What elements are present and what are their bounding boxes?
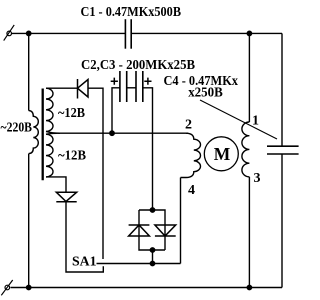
svg-text:M: M bbox=[214, 144, 231, 164]
wire C4 pointer leader bbox=[200, 100, 277, 139]
wire C4 bottom lead bbox=[281, 154, 283, 288]
node diode pair top bbox=[150, 207, 156, 213]
terminal top-left bbox=[4, 25, 15, 41]
wire winding 1 top lead bbox=[248, 33, 250, 122]
node top-left junction bbox=[26, 31, 32, 37]
diode VD3 (left, pointing up) bbox=[129, 225, 150, 236]
wire C2C3 middle link bbox=[127, 87, 136, 89]
wire VD2 down and right to switch stub bbox=[66, 202, 103, 272]
svg-text:SA1: SA1 bbox=[72, 255, 97, 270]
wire winding 3 bottom lead bbox=[248, 177, 250, 288]
motor starting winding 2-4 bbox=[181, 133, 201, 177]
wire top bus right bbox=[131, 32, 282, 34]
capacitor C1 bbox=[125, 19, 131, 49]
wire diode pair frame bbox=[139, 210, 165, 250]
node bottom-left junction bbox=[26, 285, 32, 291]
wire C2C3 right lead bbox=[143, 88, 153, 210]
svg-text:~12B: ~12B bbox=[58, 106, 85, 121]
wire C2C3 left lead bbox=[112, 88, 120, 133]
motor run winding 1-3 bbox=[242, 122, 249, 177]
svg-text:4: 4 bbox=[188, 183, 195, 198]
node diode pair bottom bbox=[150, 247, 156, 253]
diode VD1 bbox=[78, 79, 89, 99]
wire secondary top lead bbox=[46, 87, 78, 89]
wire secondary bottom lead bbox=[46, 177, 66, 192]
terminal bottom-left bbox=[1, 280, 12, 295]
svg-text:~12B: ~12B bbox=[58, 148, 86, 163]
label C4 value bbox=[164, 74, 239, 101]
label plus right bbox=[144, 78, 151, 85]
wire top bus bbox=[12, 32, 126, 34]
svg-text:~220B: ~220B bbox=[1, 121, 33, 136]
wire VD1 to switch (down at x=103) bbox=[88, 88, 103, 259]
svg-text:3: 3 bbox=[254, 171, 261, 186]
node switch to diode pair junction bbox=[150, 261, 156, 267]
svg-text:C2,C3 - 200MKx25B: C2,C3 - 200MKx25B bbox=[81, 58, 195, 73]
transformer secondary winding upper bbox=[46, 88, 53, 131]
svg-text:2: 2 bbox=[185, 118, 192, 133]
wire winding 4 lead bbox=[180, 178, 182, 264]
wire right edge down to C4 bbox=[281, 33, 283, 146]
motor M1 bbox=[204, 137, 238, 171]
wire switch blade SA1 bbox=[97, 263, 181, 265]
wire diode pair bottom stem bbox=[152, 250, 154, 264]
transformer core bbox=[42, 89, 44, 181]
transformer T1 primary winding bbox=[29, 111, 39, 154]
transformer center tap stubs bbox=[46, 131, 60, 134]
capacitor C2 C3 plates bbox=[120, 71, 143, 102]
capacitor C4 bbox=[267, 146, 299, 154]
svg-text:x250B: x250B bbox=[188, 86, 223, 101]
node top-right junction bbox=[247, 31, 253, 37]
svg-text:C1 - 0.47MKx500B: C1 - 0.47MKx500B bbox=[81, 5, 182, 20]
diode VD4 (right, pointing down) bbox=[155, 225, 176, 236]
wire bottom bus bbox=[11, 287, 283, 289]
node bottom-right junction bbox=[247, 285, 253, 291]
transformer secondary winding lower bbox=[46, 134, 53, 177]
node center tap / C2C3 junction bbox=[109, 130, 115, 136]
label plus left bbox=[111, 78, 118, 85]
svg-text:1: 1 bbox=[252, 114, 259, 129]
wire left vertical lower bbox=[28, 154, 30, 288]
wire left vertical upper bbox=[28, 33, 30, 110]
diode VD2 bbox=[56, 192, 76, 202]
wire center tap to winding 2 bbox=[58, 132, 188, 134]
